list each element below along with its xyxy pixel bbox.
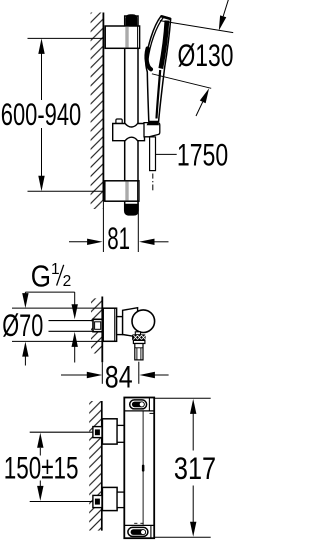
- dimension 317 extension line top: [154, 397, 211, 399]
- dimension 84 extension line right: [138, 362, 140, 384]
- shower head top edge thick: [161, 16, 170, 19]
- shower hose: [150, 137, 156, 171]
- supply pipe stub: [49, 320, 94, 322]
- dimension 81 extension line right: [137, 203, 139, 253]
- dimension Ø130 extension line upper: [160, 21, 233, 33]
- svg-text:81: 81: [107, 220, 130, 256]
- hand shower head and handle outline: [146, 16, 171, 122]
- wall hatching (bottom view): [89, 401, 102, 531]
- dimension Ø70 extension line top: [12, 307, 102, 309]
- dimension 84 right arrow: [155, 374, 169, 376]
- vertical line right of bottom slot: [150, 525, 152, 538]
- dimension 317 extension line bottom: [154, 536, 211, 538]
- G1/2 right arrow (down to supply pipe): [74, 292, 76, 305]
- escutcheon: [103, 308, 116, 341]
- wall hatching (top view): [91, 13, 104, 210]
- wall line (top view): [102, 13, 104, 202]
- dimension Ø70 extension line bottom: [12, 340, 102, 342]
- bottom tab line: [124, 524, 154, 526]
- knurled outlet nut: [132, 334, 146, 340]
- dimension 150±15 top arrow: [39, 448, 41, 456]
- svg-text:317: 317: [174, 450, 216, 486]
- rail bottom end cap: [125, 204, 138, 215]
- shower head dark band: [161, 21, 167, 69]
- svg-text:150±15: 150±15: [4, 449, 79, 485]
- top union nut: [93, 427, 102, 438]
- bottom connection neck: [117, 492, 124, 508]
- bottom union nut: [93, 495, 102, 507]
- svg-text:Ø130: Ø130: [178, 37, 234, 73]
- wall extension line for 84: [101, 362, 103, 384]
- dimension 81 extension line left: [102, 201, 104, 252]
- dimension 600-940 line and arrows: [41, 53, 43, 100]
- svg-text:G: G: [31, 260, 51, 294]
- holder cup: [144, 123, 160, 137]
- knob circle: [132, 310, 155, 333]
- bottom supply line: [30, 501, 93, 503]
- dimension Ø130 upper arrow: [223, 0, 229, 16]
- wall line (bottom view): [101, 401, 103, 531]
- G1/2 left arrow (down, shared with Ø70): [24, 292, 26, 294]
- thermostat body: [124, 398, 154, 539]
- leader line 1750: [156, 153, 177, 155]
- shower rail tube: [125, 16, 138, 215]
- slider holder bar with waist: [113, 124, 145, 141]
- svg-text:Ø70: Ø70: [2, 307, 43, 343]
- escutcheon inner line: [114, 308, 116, 341]
- supply pipe up arrow: [74, 347, 76, 363]
- dimension 317 line and arrows: [192, 413, 194, 450]
- top tab cross tick: [150, 412, 156, 414]
- slider release button: [116, 119, 122, 124]
- dimension 600-940 extension line top: [28, 37, 104, 39]
- bottom wall bracket: [105, 181, 139, 201]
- outlet neck under knob: [135, 332, 140, 335]
- hose centerline dash-dot: [152, 174, 154, 179]
- svg-text:2: 2: [63, 273, 72, 290]
- wall line (middle view): [101, 297, 103, 363]
- top connection block: [102, 419, 117, 444]
- Ø70 lower up arrow: [24, 357, 26, 366]
- knob housing: [123, 308, 138, 337]
- dimension Ø130 lower arrow: [196, 102, 203, 116]
- dimension 84 left arrow: [61, 374, 87, 376]
- supply union nut: [93, 319, 102, 331]
- svg-text:1: 1: [51, 261, 60, 278]
- dimension 81 left arrow: [69, 241, 88, 243]
- shower head face inner line: [148, 18, 163, 61]
- head bottom-left dark rim: [146, 49, 151, 70]
- G1/2 leader line: [25, 291, 74, 293]
- bottom connection block: [102, 487, 117, 510]
- body centerline: [142, 412, 144, 525]
- svg-text:600-940: 600-940: [1, 96, 81, 132]
- top tab line: [124, 410, 154, 412]
- top mounting slot: [130, 400, 147, 409]
- outlet pipe: [135, 344, 143, 360]
- top connection neck: [117, 425, 124, 442]
- top supply line: [30, 431, 93, 433]
- top wall bracket: [105, 26, 139, 48]
- dimension 600-940 extension line bottom: [28, 190, 104, 192]
- vertical line right of top slot: [148, 398, 150, 411]
- bottom mounting slot: [128, 527, 148, 536]
- dimension 81 right arrow: [154, 241, 169, 243]
- valve body neck: [117, 317, 123, 335]
- handle dark stripe: [157, 70, 161, 119]
- dimension 150±15 bottom arrow: [39, 481, 41, 487]
- rail top end cap: [126, 14, 138, 25]
- svg-text:1750: 1750: [177, 136, 228, 172]
- wall hatching (middle view): [91, 298, 102, 353]
- dimension Ø130 extension line lower: [152, 74, 211, 89]
- svg-text:84: 84: [105, 359, 133, 395]
- outlet connector: [133, 340, 145, 343]
- handle cone in holder cup: [147, 121, 160, 125]
